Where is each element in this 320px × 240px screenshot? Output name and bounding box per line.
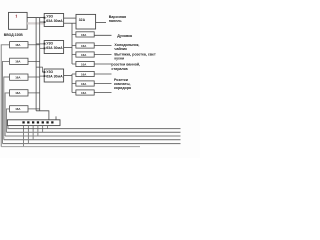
U1 lower input stub from bus L xyxy=(40,21,45,23)
breaker L2 16A xyxy=(10,58,28,64)
red meter mark inside Q1 xyxy=(15,15,18,18)
circuit line 2 xyxy=(6,131,180,133)
circuit line 4 xyxy=(4,139,181,141)
32A output wire xyxy=(95,21,106,23)
svg-text:32А: 32А xyxy=(79,18,86,22)
bus L (vertical 2) xyxy=(39,18,41,111)
L5 wire to bus xyxy=(28,108,40,110)
drop from dot 4 xyxy=(37,126,39,136)
stub bus A to D3 xyxy=(72,54,76,56)
svg-text:16А: 16А xyxy=(15,43,21,47)
svg-text:розетки ванной,: розетки ванной, xyxy=(111,62,140,66)
drop from dot 3 xyxy=(32,126,34,140)
svg-text:коридора: коридора xyxy=(114,86,132,90)
bus N (vertical 1) xyxy=(35,18,37,111)
L2 outgoing circuit wire xyxy=(3,61,10,143)
circuit line 5 xyxy=(3,143,181,145)
breaker L3 16A xyxy=(10,74,28,80)
input box Q1 xyxy=(9,12,28,29)
breaker D3 16A xyxy=(76,52,94,57)
D1 output wire xyxy=(94,34,111,36)
bus B from U3 to D5-D7 xyxy=(71,74,73,93)
breaker D6 16A xyxy=(76,81,94,86)
svg-text:16А: 16А xyxy=(15,107,21,111)
L3 outgoing circuit wire xyxy=(4,77,10,140)
svg-text:стиралка: стиралка xyxy=(111,67,128,71)
drop from dot 2 xyxy=(27,126,29,144)
svg-text:ВВОД 220В: ВВОД 220В xyxy=(4,33,23,37)
breaker D2 16A xyxy=(76,43,94,48)
svg-text:16А: 16А xyxy=(81,44,87,48)
D3 output wire xyxy=(94,54,111,56)
breaker D1 16A xyxy=(76,32,94,37)
D7 output wire xyxy=(94,92,111,94)
breaker L4 16A xyxy=(10,90,28,96)
stub bus B to D5 xyxy=(72,73,76,75)
L5 outgoing circuit wire xyxy=(6,109,9,132)
svg-text:16А: 16А xyxy=(81,33,87,37)
drop from dot 5 xyxy=(42,126,44,133)
drop from dot 1 xyxy=(23,126,25,147)
svg-text:Духовка: Духовка xyxy=(117,34,133,38)
RCD U2 xyxy=(44,41,63,54)
RCD U1 xyxy=(44,14,63,27)
U1 input terminals xyxy=(44,17,46,19)
U3 output wire xyxy=(64,75,72,77)
svg-text:чайник: чайник xyxy=(114,47,127,51)
svg-text:63А 30мА: 63А 30мА xyxy=(46,19,63,23)
breaker L1 16A xyxy=(10,42,28,48)
svg-text:16А: 16А xyxy=(81,72,87,76)
svg-text:63А 30мА: 63А 30мА xyxy=(46,74,63,78)
D2 output wire xyxy=(94,45,111,47)
RCD U3 xyxy=(44,69,63,82)
U1 output wire to 32A breaker (upper) xyxy=(64,17,76,19)
D6 output wire xyxy=(94,83,111,85)
U2 output wire xyxy=(64,47,72,49)
svg-text:10А: 10А xyxy=(81,62,87,66)
stub bus A to D1 xyxy=(72,33,76,35)
breaker 32A for hob xyxy=(76,14,96,29)
svg-text:панель: панель xyxy=(109,19,123,23)
U3 input jog from bus N xyxy=(36,67,44,72)
L3 wire to bus xyxy=(28,76,40,78)
D5 output wire xyxy=(94,73,111,75)
stub bus A to D4 xyxy=(72,63,76,65)
svg-text:16А: 16А xyxy=(15,60,21,64)
svg-text:16А: 16А xyxy=(81,82,87,86)
svg-text:16А: 16А xyxy=(81,91,87,95)
breaker D5 16A xyxy=(76,71,94,76)
stub bus B to D7 xyxy=(72,92,76,94)
svg-text:кухни: кухни xyxy=(114,57,124,61)
svg-text:16А: 16А xyxy=(15,91,21,95)
U2 input stub from bus N xyxy=(36,43,44,45)
breaker L5 16A xyxy=(10,106,28,112)
circuit line 3 xyxy=(5,135,180,137)
strip terminal dots xyxy=(22,121,24,123)
stub into strip at x56 xyxy=(55,116,57,119)
U1 output wire lower xyxy=(64,22,76,24)
U2 input terminals xyxy=(44,43,46,45)
stub bus A to D2 xyxy=(72,45,76,47)
L2 wire to bus xyxy=(28,60,40,62)
breaker D7 16A xyxy=(76,90,94,95)
wire input to UZO1 (upper) xyxy=(27,17,44,19)
U2 input stub from bus L xyxy=(40,47,45,49)
U3 input terminals xyxy=(44,71,46,73)
terminal strip (N/PE bar) xyxy=(7,120,60,126)
svg-text:63А 30мА: 63А 30мА xyxy=(46,46,63,50)
jog from buses to terminal strip xyxy=(36,111,49,120)
wire input to UZO1 (lower, faint) xyxy=(27,22,44,24)
svg-text:16А: 16А xyxy=(15,76,21,80)
L1 wire to bus xyxy=(28,44,40,46)
D4 output wire xyxy=(94,63,111,65)
breaker D4 10A xyxy=(76,61,94,66)
stub bus B to D6 xyxy=(72,83,76,85)
L4 wire to bus xyxy=(28,92,40,94)
drop from dot 6 xyxy=(47,126,49,129)
bus A from U1/U2 to D1-D4 xyxy=(71,23,73,64)
svg-text:16А: 16А xyxy=(81,53,87,57)
U3 input stub from bus L xyxy=(40,75,45,77)
L4 outgoing circuit wire xyxy=(5,93,10,136)
L1 outgoing circuit wire xyxy=(1,45,9,147)
strip left drop to line 1 xyxy=(8,126,181,129)
circuit line 6 xyxy=(1,146,140,148)
